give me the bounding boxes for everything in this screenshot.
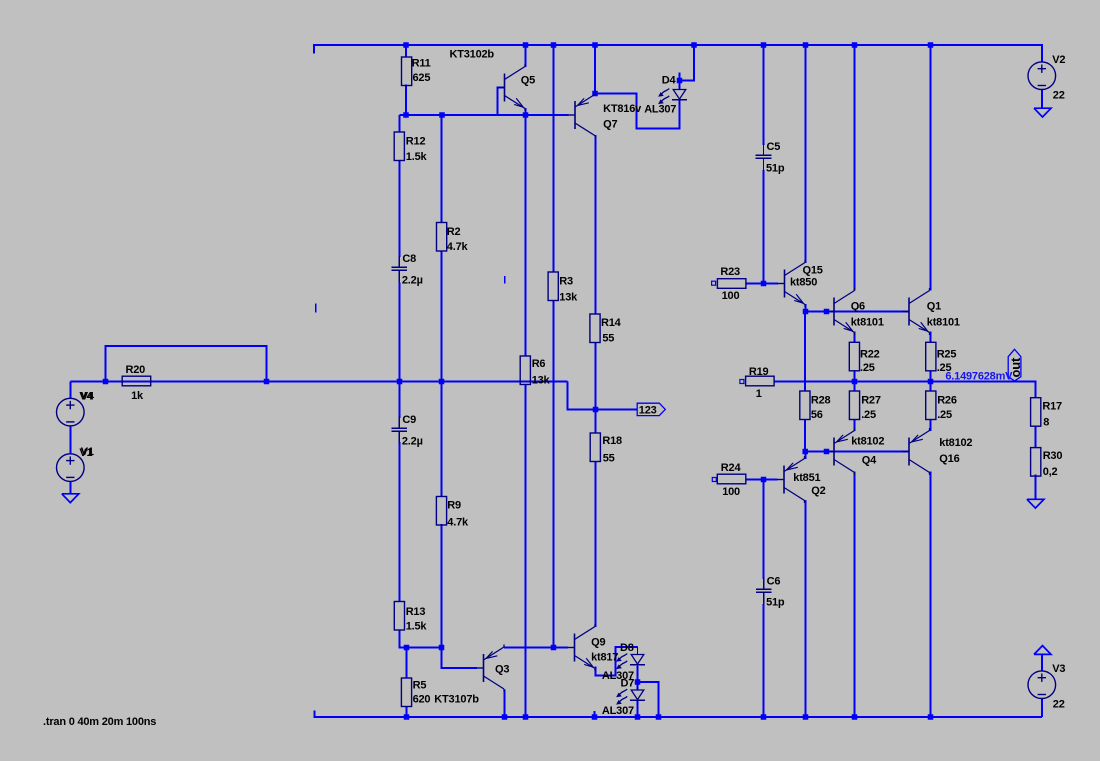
wire D4 anode stub — [679, 73, 681, 91]
resistor R20 — [122, 376, 151, 386]
svg-text:6.1497628mV: 6.1497628mV — [945, 371, 1013, 383]
svg-text:D7: D7 — [621, 678, 635, 690]
transistor Q5 (NPN) — [498, 87, 505, 89]
wire Q5 base jog — [498, 88, 505, 117]
resistor R3 — [548, 272, 558, 301]
svg-text:.25: .25 — [937, 409, 952, 421]
wire R5 to bottom rail — [406, 706, 408, 717]
node Q6 base — [824, 309, 830, 315]
voltage source V3 — [1028, 671, 1056, 699]
wire R28 to node D — [804, 420, 806, 452]
svg-text:C6: C6 — [767, 575, 781, 587]
wire bottom rail — [315, 716, 1043, 718]
wire Q1 emitter to R25 — [930, 332, 932, 344]
wire rail to Q7 emitter — [594, 45, 596, 94]
node Q7 emitter/rail — [592, 42, 598, 48]
svg-text:Q5: Q5 — [521, 75, 535, 87]
transistor Q7 (PNP) — [568, 114, 575, 116]
node R3/rail — [551, 42, 557, 48]
svg-text:R6: R6 — [532, 358, 546, 370]
svg-text:13k: 13k — [559, 291, 578, 303]
svg-text:KT3107b: KT3107b — [434, 693, 479, 705]
svg-text:625: 625 — [413, 72, 431, 84]
wire C8 to C9 — [398, 283, 400, 419]
node C6/bottom rail — [761, 714, 767, 720]
resistor R19 — [746, 376, 775, 386]
wire Q3 emitter to node B — [504, 647, 568, 649]
capacitor C8 — [392, 266, 408, 268]
ground below R30 — [1027, 499, 1044, 508]
node R2 row — [439, 112, 445, 118]
voltage source V1 — [57, 454, 85, 482]
wire R26 top pin — [930, 382, 932, 392]
svg-text:100: 100 — [722, 290, 740, 302]
resistor R28 — [800, 391, 810, 420]
node R6/bottom rail — [523, 714, 529, 720]
svg-text:D8: D8 — [620, 642, 634, 654]
resistor R27 — [849, 391, 859, 420]
svg-text:Q7: Q7 — [603, 119, 617, 131]
wire V3 bottom lead — [1041, 699, 1043, 717]
wire R22 to out bus — [854, 371, 856, 382]
svg-text:AL307: AL307 — [644, 103, 676, 115]
svg-text:kt8102: kt8102 — [851, 435, 884, 447]
node stub/bottom rail — [592, 714, 598, 720]
wire R9 to node C — [441, 524, 443, 648]
svg-text:.tran 0 40m 20m 100ns: .tran 0 40m 20m 100ns — [43, 716, 156, 728]
node C5/R23/Q15 base — [761, 281, 767, 287]
node bus/R2-R9 — [439, 379, 445, 385]
svg-text:kt8102: kt8102 — [939, 437, 972, 449]
wire C9 to R13 — [398, 442, 400, 602]
wire R2 to bus — [441, 251, 443, 382]
node R22/R27/bus — [852, 379, 858, 385]
node bus/R20 right — [264, 379, 270, 385]
resistor R22 — [849, 342, 859, 371]
resistor R14 — [590, 314, 600, 343]
svg-text:.25: .25 — [861, 409, 876, 421]
svg-text:R27: R27 — [861, 395, 881, 407]
svg-text:kt851: kt851 — [793, 472, 820, 484]
svg-text:1k: 1k — [131, 390, 144, 402]
svg-text:R20: R20 — [126, 364, 146, 376]
wire R27 to Q4 emitter — [854, 420, 856, 432]
voltage source V4 — [57, 398, 85, 426]
wire R12 to C8 — [398, 161, 400, 258]
node R28/Q2 emitter/Q4 base — [802, 449, 808, 455]
svg-text:R24: R24 — [721, 462, 742, 474]
node Q1 collector/rail — [928, 42, 934, 48]
svg-text:Q6: Q6 — [851, 301, 865, 313]
svg-text:Q9: Q9 — [591, 636, 605, 648]
node R5 top — [404, 645, 410, 651]
wire R2 top pin — [441, 115, 443, 223]
svg-text:123: 123 — [639, 405, 657, 417]
wire D4 anode to rail — [680, 44, 695, 81]
resistor R25 — [926, 342, 936, 371]
wire C5 to R23 node — [763, 170, 765, 284]
wire stub on bottom rail — [594, 711, 596, 718]
wire R23 to Q15 base — [746, 283, 778, 285]
node Q6 collector/rail — [852, 42, 858, 48]
svg-text:R26: R26 — [937, 395, 957, 407]
wire Q9 emitter to D8 anode — [596, 647, 638, 676]
svg-text:R12: R12 — [406, 136, 426, 148]
svg-text:AL307: AL307 — [602, 705, 634, 717]
svg-text:C8: C8 — [402, 253, 416, 265]
node D8/D7 junction — [635, 679, 641, 685]
node R3/Q9 base — [551, 645, 557, 651]
ground above V3 (inverted) — [1034, 646, 1051, 655]
node Q4 base stub — [824, 449, 830, 455]
node Q2 collector/bottom rail — [803, 714, 809, 720]
svg-text:V2: V2 — [1052, 54, 1065, 66]
wire Q3 collector to rail — [504, 690, 506, 718]
node Q15 collector/rail — [803, 42, 809, 48]
node R11/rail — [403, 42, 409, 48]
resistor R9 — [436, 497, 446, 526]
node bus/C8-C9 — [397, 379, 403, 385]
wire Q15 emitter to Q1 base — [806, 311, 910, 313]
transistor Q4 (PNP) — [827, 451, 834, 453]
wire V2 top lead — [1041, 44, 1043, 63]
svg-text:R23: R23 — [720, 266, 740, 278]
wire R30 to ground — [1035, 475, 1037, 500]
capacitor C9 — [392, 427, 408, 429]
node Q15 emitter — [803, 309, 809, 315]
svg-text:R14: R14 — [601, 317, 622, 329]
svg-text:R22: R22 — [860, 348, 880, 360]
resistor R12 — [394, 132, 404, 161]
net flag 123 — [637, 403, 665, 415]
node Q5 emitter row — [523, 112, 529, 118]
terminal R19 left pin — [740, 380, 744, 384]
wire Q15 emitter stub — [805, 304, 807, 312]
wire R25 to out bus — [930, 371, 932, 382]
resistor R23 — [717, 279, 746, 289]
LED D4 — [679, 82, 681, 90]
svg-text:56: 56 — [811, 409, 823, 421]
svg-text:22: 22 — [1053, 90, 1065, 102]
node Q3 collector/bottom rail — [502, 714, 508, 720]
resistor R2 — [437, 223, 447, 252]
wire C6 to bottom rail — [763, 604, 765, 717]
svg-text:kt8101: kt8101 — [927, 316, 960, 328]
node R5/bottom rail — [404, 714, 410, 720]
wire Q6 collector to rail — [854, 45, 856, 291]
capacitor C5 — [756, 154, 772, 156]
svg-text:R17: R17 — [1042, 401, 1062, 413]
wire V1 to ground — [70, 482, 72, 495]
svg-text:C5: C5 — [767, 141, 781, 153]
wire node C to R5 — [406, 648, 408, 679]
wire R11 top pin — [405, 45, 407, 58]
node D4/rail — [691, 42, 697, 48]
svg-text:Q4: Q4 — [862, 455, 877, 467]
svg-text:R11: R11 — [412, 58, 431, 70]
wire R18 to Q9 collector — [595, 461, 597, 627]
wire Q4 collector to rail — [854, 472, 856, 718]
LED D7 — [637, 682, 639, 690]
wire R14 to node 123 — [595, 342, 597, 410]
resistor R26 — [926, 391, 936, 420]
node D7/bottom rail — [635, 714, 641, 720]
node Q7 emitter — [592, 91, 598, 97]
svg-text:R28: R28 — [811, 395, 831, 407]
terminal R24 left pin — [712, 478, 716, 482]
resistor R6 — [520, 356, 530, 385]
wire R3 to node B — [553, 300, 555, 648]
wire Q5 emitter stub — [525, 108, 527, 116]
node Q3 base — [439, 645, 445, 651]
node C5/rail — [761, 42, 767, 48]
wire D8 cathode to D7 anode — [637, 666, 639, 691]
svg-text:4.7k: 4.7k — [447, 241, 469, 253]
resistor R24 — [717, 474, 746, 484]
wire Q15 emitter to R28 — [804, 312, 806, 392]
wire Q5 collector to rail — [525, 45, 527, 67]
voltage source V2 — [1028, 62, 1056, 90]
wire rail to C5 — [763, 45, 765, 145]
svg-text:100: 100 — [722, 486, 740, 498]
resistor R30 — [1031, 448, 1041, 477]
wire Q1 collector to rail — [930, 45, 932, 291]
wire V4 to V1 — [70, 426, 72, 455]
wire R27 top pin — [854, 382, 856, 392]
svg-text:51p: 51p — [766, 162, 785, 174]
svg-text:8: 8 — [1043, 417, 1049, 429]
svg-text:R25: R25 — [937, 348, 957, 360]
svg-text:V4: V4 — [79, 391, 93, 403]
wire R24 to Q2 base — [746, 479, 778, 481]
wire node 123 to R18 — [595, 410, 597, 434]
wire Q2 collector to rail — [805, 500, 807, 717]
transistor Q15 (NPN) — [778, 283, 785, 285]
wire top rail left end tick — [313, 44, 315, 54]
node Q4 collector/bottom rail — [852, 714, 858, 720]
wire dangling stub 2 — [504, 276, 506, 284]
wire node D to Q16 base — [805, 451, 909, 453]
svg-text:Q15: Q15 — [803, 264, 823, 276]
wire input bus — [71, 381, 568, 383]
svg-text:kt817: kt817 — [591, 652, 618, 664]
node R24/C6/Q2 base — [761, 477, 767, 483]
wire V3 top lead — [1041, 654, 1043, 672]
svg-text:Q2: Q2 — [811, 485, 825, 497]
wire top V+ rail — [313, 44, 1042, 46]
node R11/R12 row — [403, 112, 409, 118]
svg-text:R5: R5 — [413, 680, 427, 692]
wire R11 bottom pin — [405, 85, 407, 116]
svg-text:55: 55 — [603, 452, 615, 464]
wire R13 to node C — [399, 630, 441, 648]
wire output bus — [775, 382, 1036, 399]
LED D8 — [637, 647, 639, 655]
node Q16 collector/bottom rail — [928, 714, 934, 720]
transistor Q3 (PNP) — [477, 667, 484, 669]
net flag out — [1008, 349, 1021, 381]
wire rail to R3 — [553, 45, 555, 273]
node D4 anode — [677, 78, 683, 84]
svg-text:55: 55 — [602, 332, 614, 344]
svg-text:51p: 51p — [766, 596, 785, 608]
resistor R5 — [401, 678, 411, 707]
svg-text:620: 620 — [413, 693, 431, 705]
svg-text:R9: R9 — [447, 500, 461, 512]
svg-text:KT816v: KT816v — [603, 103, 642, 115]
svg-text:D4: D4 — [662, 75, 677, 87]
wire R17 to R30 — [1035, 426, 1037, 448]
svg-text:2.2µ: 2.2µ — [402, 274, 423, 286]
resistor R18 — [590, 433, 600, 462]
svg-text:2.2µ: 2.2µ — [402, 435, 423, 447]
svg-text:R2: R2 — [447, 226, 461, 238]
transistor Q1 (NPN) — [902, 311, 909, 313]
node D7 link/bottom rail — [656, 714, 662, 720]
transistor Q2 (PNP) — [777, 479, 784, 481]
svg-text:Q3: Q3 — [495, 664, 509, 676]
svg-text:V1: V1 — [79, 447, 92, 459]
node R25/R26/bus — [928, 379, 934, 385]
svg-text:R3: R3 — [559, 276, 573, 288]
wire R6 to bottom rail — [525, 384, 527, 717]
svg-text:1.5k: 1.5k — [406, 621, 428, 633]
node bus/R20 left — [103, 379, 109, 385]
wire Q3 base jog — [442, 648, 478, 669]
transistor Q9 (NPN) — [568, 647, 575, 649]
wire D8/D7 junction to rail — [638, 682, 659, 717]
svg-text:R30: R30 — [1043, 450, 1063, 462]
svg-text:4.7k: 4.7k — [447, 516, 469, 528]
wire D7 cathode to rail — [637, 701, 639, 718]
svg-text:C9: C9 — [402, 414, 416, 426]
wire bus to R9 — [441, 382, 443, 498]
wire node E to C6 — [763, 480, 765, 580]
svg-text:1.5k: 1.5k — [406, 151, 428, 163]
svg-text:kt850: kt850 — [790, 276, 817, 288]
svg-text:V3: V3 — [1052, 663, 1065, 675]
wire Q2 emitter stub — [804, 452, 806, 459]
terminal R23 left pin — [712, 281, 716, 285]
transistor Q6 (NPN) — [827, 311, 834, 313]
wire dangling stub 1 — [315, 304, 317, 313]
svg-text:R18: R18 — [602, 435, 622, 447]
svg-text:22: 22 — [1053, 699, 1065, 711]
ground below V1 — [62, 494, 79, 503]
wire Q7 collector to R14 — [595, 135, 597, 315]
node 123 junction — [593, 407, 599, 413]
wire row node A y=115 — [399, 114, 568, 116]
capacitor C6 — [756, 588, 772, 590]
wire Q6 emitter to R22 — [854, 332, 856, 344]
wire R20 bypass loop — [106, 346, 267, 382]
svg-text:0,2: 0,2 — [1043, 466, 1058, 478]
wire V2 bottom lead — [1041, 90, 1043, 109]
wire Q5 emitter to R6 — [525, 115, 527, 357]
wire R26 to Q16 emitter — [930, 420, 932, 432]
svg-text:R13: R13 — [406, 606, 426, 618]
node Q5 collector/rail — [523, 42, 529, 48]
wire bottom rail left end tick — [314, 711, 316, 719]
wire Q7 emitter to D4 cathode — [595, 94, 680, 129]
resistor R17 — [1031, 398, 1041, 427]
wire Q16 collector to rail — [930, 472, 932, 718]
wire bus jog to node 123 — [568, 382, 638, 410]
svg-text:KT3102b: KT3102b — [450, 49, 495, 61]
svg-text:R19: R19 — [749, 366, 769, 378]
svg-text:kt8101: kt8101 — [851, 316, 884, 328]
resistor R11 — [402, 57, 412, 86]
svg-text:.25: .25 — [860, 362, 875, 374]
svg-text:Q16: Q16 — [939, 453, 959, 465]
transistor Q16 (PNP) — [902, 451, 909, 453]
resistor R13 — [394, 602, 404, 631]
wire R12 top pin — [398, 115, 400, 133]
ground below V2 — [1034, 108, 1051, 117]
svg-text:Q1: Q1 — [927, 301, 941, 313]
wire V4 top lead — [70, 382, 72, 399]
wire Q15 collector to rail — [805, 45, 807, 263]
svg-text:1: 1 — [756, 388, 762, 400]
svg-text:13k: 13k — [532, 375, 551, 387]
